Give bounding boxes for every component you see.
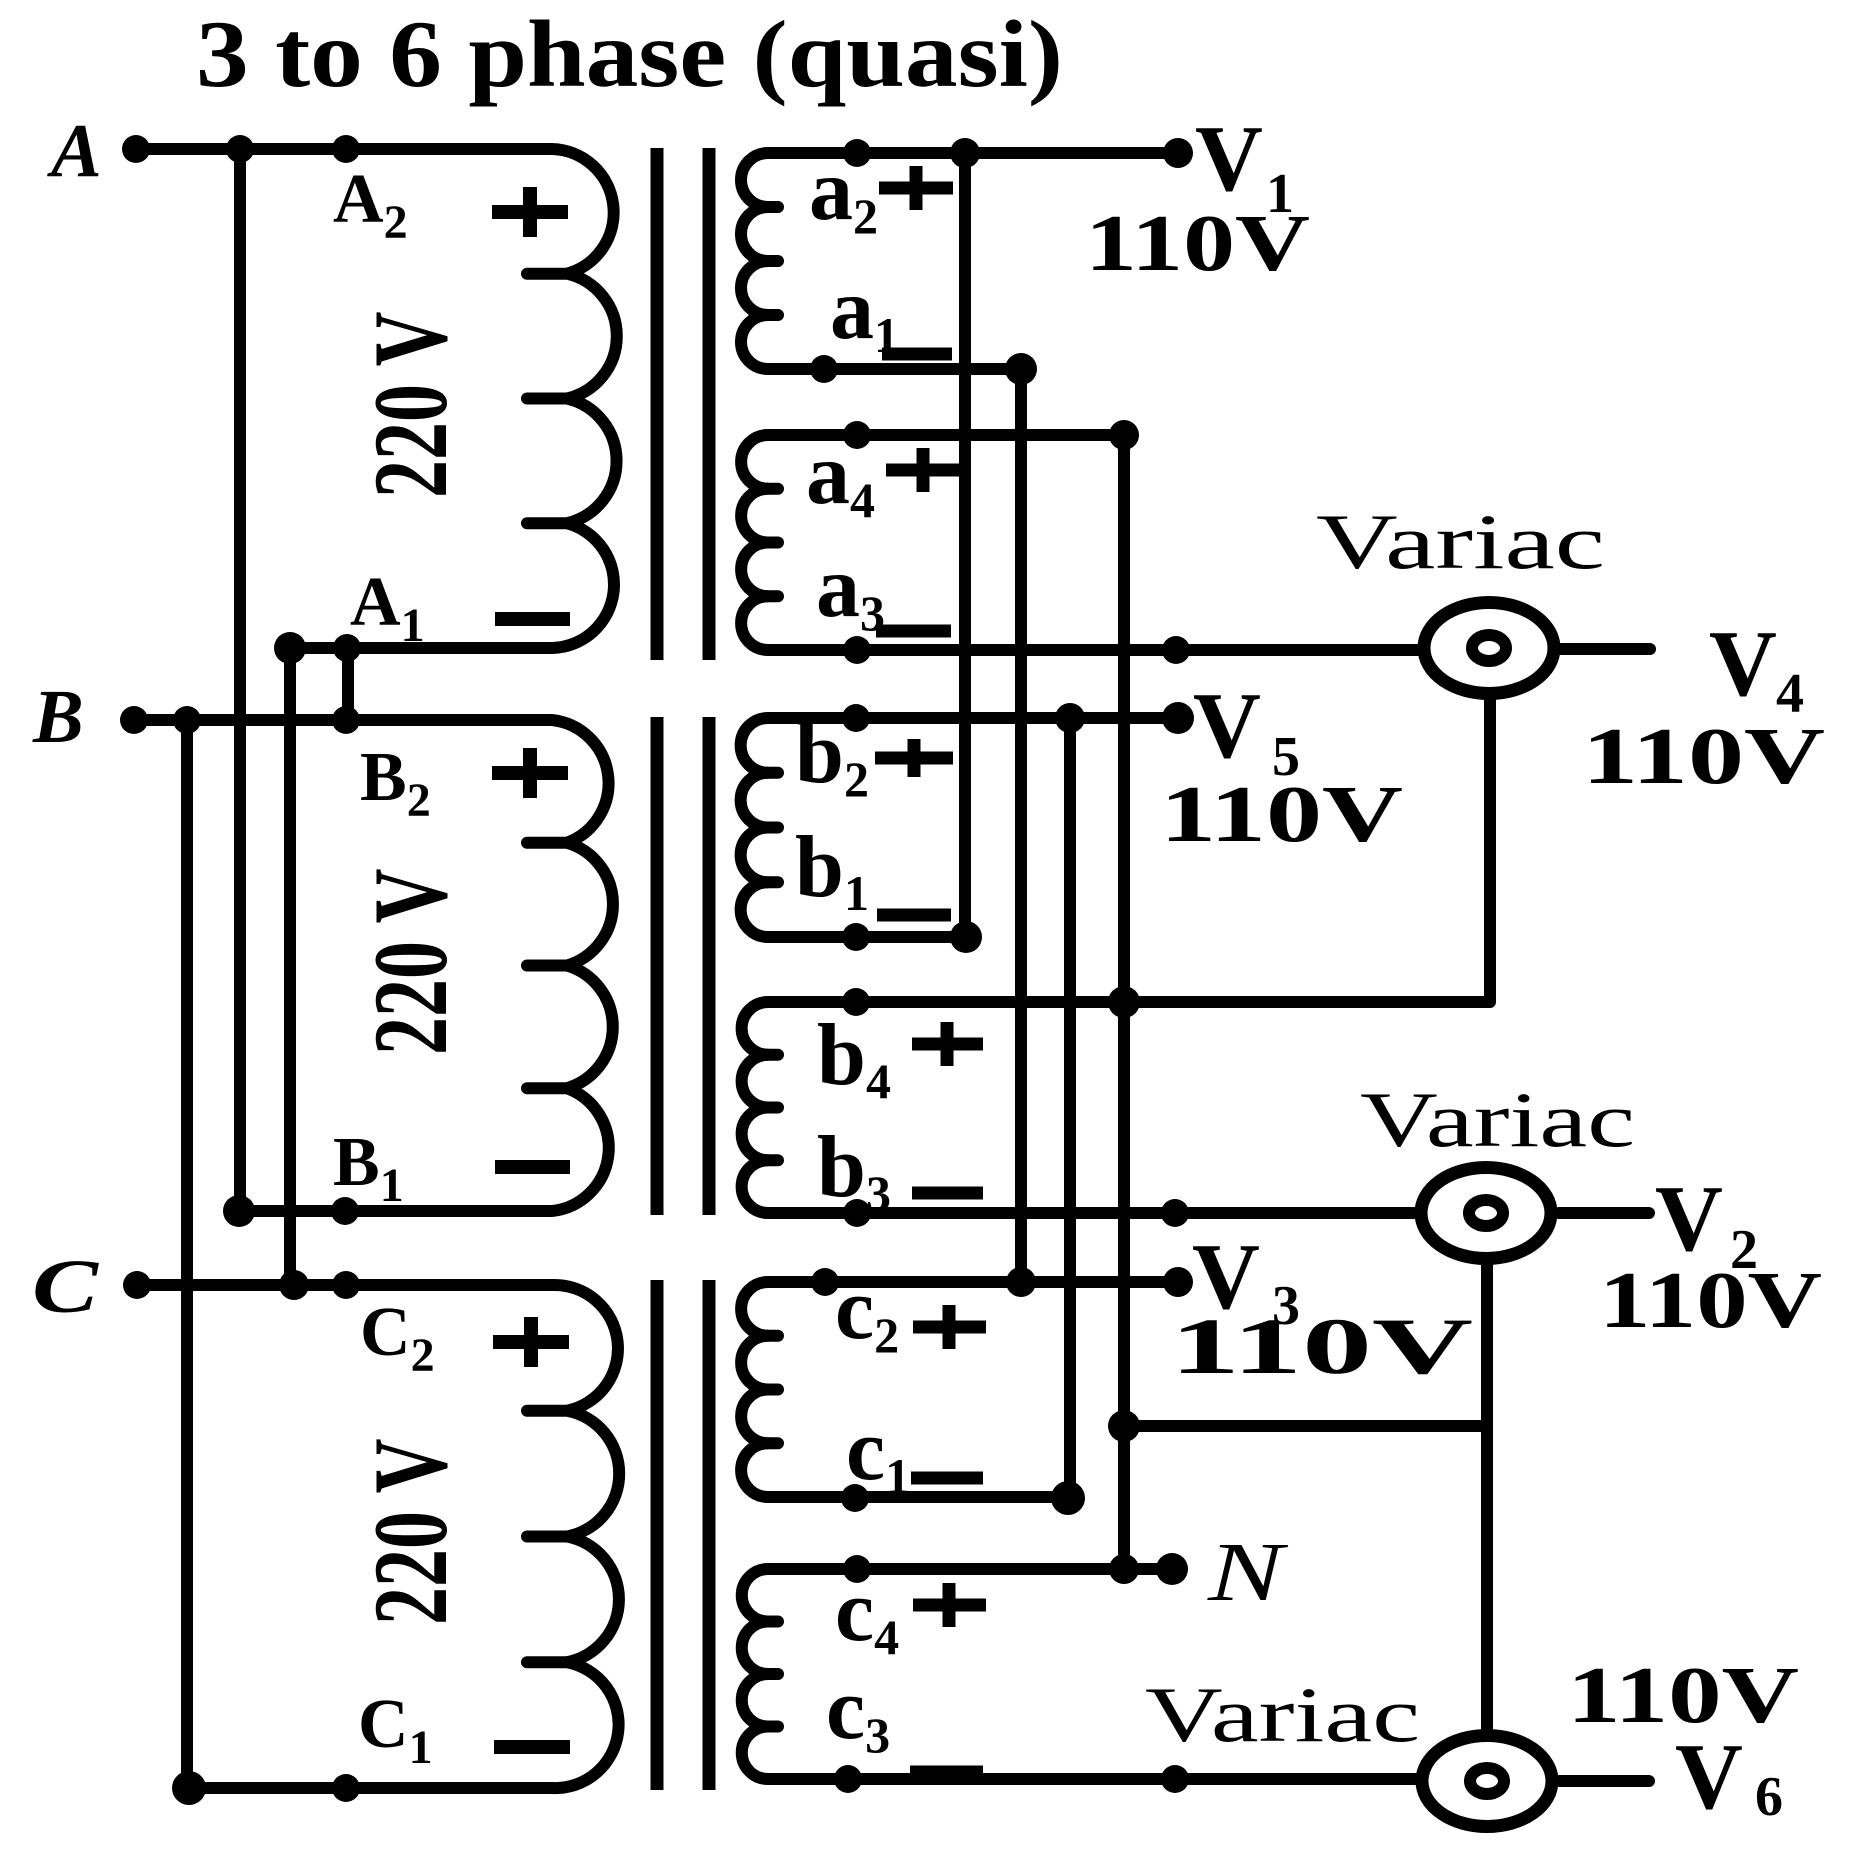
- svg-text:110V: 110V: [1170, 1303, 1473, 1391]
- svg-text:V: V: [1655, 1167, 1723, 1271]
- svg-text:3 to 6 phase (quasi): 3 to 6 phase (quasi): [196, 1, 1063, 107]
- svg-text:A: A: [47, 109, 102, 193]
- svg-text:110V: 110V: [1160, 771, 1403, 859]
- svg-text:Variac: Variac: [1145, 1671, 1420, 1758]
- svg-text:220 V: 220 V: [352, 869, 469, 1055]
- svg-text:110V: 110V: [1582, 713, 1825, 801]
- svg-text:V: V: [1195, 107, 1263, 211]
- svg-text:V: V: [1675, 1725, 1743, 1829]
- svg-text:Variac: Variac: [1360, 1076, 1635, 1163]
- svg-text:6: 6: [1755, 1766, 1783, 1828]
- svg-text:N: N: [1207, 1526, 1289, 1619]
- svg-text:220 V: 220 V: [352, 1439, 469, 1625]
- svg-text:V: V: [1709, 612, 1777, 716]
- svg-text:220 V: 220 V: [352, 312, 469, 498]
- svg-text:110V: 110V: [1085, 200, 1310, 288]
- svg-text:Variac: Variac: [1316, 498, 1605, 585]
- svg-text:B: B: [32, 675, 84, 759]
- svg-text:V: V: [1193, 674, 1261, 778]
- svg-text:110V: 110V: [1599, 1257, 1822, 1345]
- svg-text:110V: 110V: [1567, 1652, 1799, 1740]
- svg-text:C: C: [32, 1245, 100, 1329]
